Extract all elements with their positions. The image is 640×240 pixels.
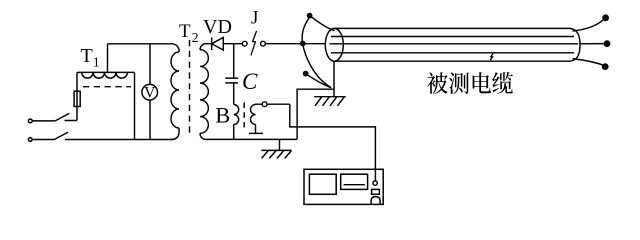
- svg-text:T: T: [179, 21, 191, 42]
- svg-text:T: T: [81, 45, 93, 67]
- svg-text:V: V: [144, 84, 156, 101]
- svg-text:J: J: [251, 8, 258, 29]
- svg-text:C: C: [242, 69, 258, 94]
- svg-text:1: 1: [93, 56, 100, 71]
- svg-text:VD: VD: [203, 16, 232, 38]
- svg-text:2: 2: [192, 30, 199, 45]
- svg-text:B: B: [215, 103, 230, 128]
